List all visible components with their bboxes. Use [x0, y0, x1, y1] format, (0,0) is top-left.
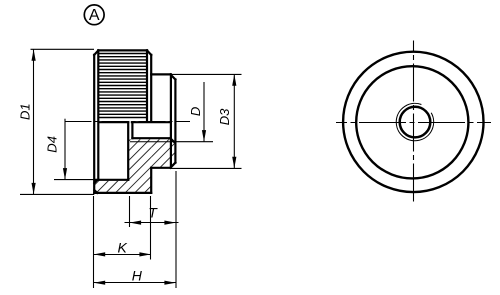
arrowhead H left [94, 281, 106, 285]
arrowhead K left [94, 252, 106, 256]
centerline vertical [413, 41, 415, 204]
arrowhead D1 bottom [32, 183, 36, 195]
arrowhead H right [164, 281, 176, 285]
dimension labels [18, 103, 233, 283]
arrowhead D [202, 130, 206, 142]
collar top edge [151, 73, 170, 75]
tap hole circle [400, 107, 431, 138]
centerline horizontal [336, 122, 491, 124]
recess bottom wall [96, 179, 129, 181]
T left ext [129, 196, 131, 227]
recess top cut edge [99, 121, 128, 123]
collar right face [174, 80, 176, 163]
left silhouette [93, 55, 95, 193]
K/H left ext [93, 196, 95, 288]
dim K [94, 254, 151, 256]
collar top-right chamfer [170, 74, 175, 79]
svg-text:D4: D4 [45, 136, 60, 153]
arrowhead T left [130, 221, 142, 225]
dimension lines [34, 49, 235, 282]
chamfer top-left [94, 50, 98, 55]
recess right wall [127, 122, 129, 180]
outer circle D1 [343, 52, 483, 192]
K right ext [150, 196, 152, 260]
thread arc [396, 103, 433, 140]
bottom-left recess mouth chamfer [94, 180, 96, 183]
thread minor line [132, 137, 170, 139]
arrowhead D3 top [232, 74, 236, 86]
arrowheads [32, 49, 237, 284]
collar bottom-right chamfer [170, 163, 175, 168]
chamfer top-right [147, 50, 151, 55]
svg-text:D1: D1 [18, 103, 33, 120]
section hatch left strip [95, 181, 128, 193]
D4 bottom ext [54, 179, 97, 181]
extension lines [20, 49, 242, 288]
section hatch collar block [151, 139, 175, 167]
dim D3 [233, 74, 235, 168]
D3 bottom ext [171, 167, 242, 169]
dim D [203, 82, 205, 142]
svg-text:T: T [148, 205, 158, 221]
D ext [176, 141, 213, 143]
T/H right ext [175, 171, 177, 288]
centerline left view [65, 121, 191, 123]
arrowhead K right [139, 252, 151, 256]
top edge [98, 49, 147, 51]
collar bottom edge [151, 167, 170, 169]
thread top cut edge [132, 121, 171, 123]
dim D1 [33, 49, 35, 194]
arrowhead D1 top [32, 49, 36, 61]
D3 top ext [170, 73, 241, 75]
recess circle D4 [356, 66, 468, 178]
dim T [125, 222, 179, 224]
bottom-left outer chamfer [94, 190, 97, 193]
left chamfer edge line [97, 50, 99, 179]
right knurl boundary [146, 50, 148, 121]
D1 bottom ext [20, 193, 94, 195]
head right face upper [150, 55, 152, 122]
svg-text:D3: D3 [217, 108, 232, 125]
knurl texture lines on head D1 [98, 54, 147, 118]
svg-text:D: D [188, 107, 203, 116]
section hatch center block [128, 139, 151, 193]
arrowhead T right [164, 221, 176, 225]
arrowhead D4 [63, 168, 67, 180]
collar chamfer edge line [170, 74, 172, 167]
head outline [94, 50, 151, 193]
svg-text:K: K [118, 239, 128, 255]
dim D4 [64, 119, 66, 180]
view label balloon A [84, 5, 104, 25]
thread entrance chamfer [170, 138, 174, 142]
bottom edge [94, 192, 151, 194]
svg-text:H: H [132, 267, 143, 283]
thread shoulder [131, 122, 133, 138]
svg-text:A: A [89, 7, 100, 24]
thread major line [130, 141, 175, 143]
dim H [94, 282, 177, 284]
head right face step (section) [150, 168, 152, 193]
D1 top ext [31, 48, 95, 50]
arrowhead D3 bottom [232, 157, 236, 169]
section hole edges [96, 122, 175, 180]
collar outline [151, 74, 175, 167]
